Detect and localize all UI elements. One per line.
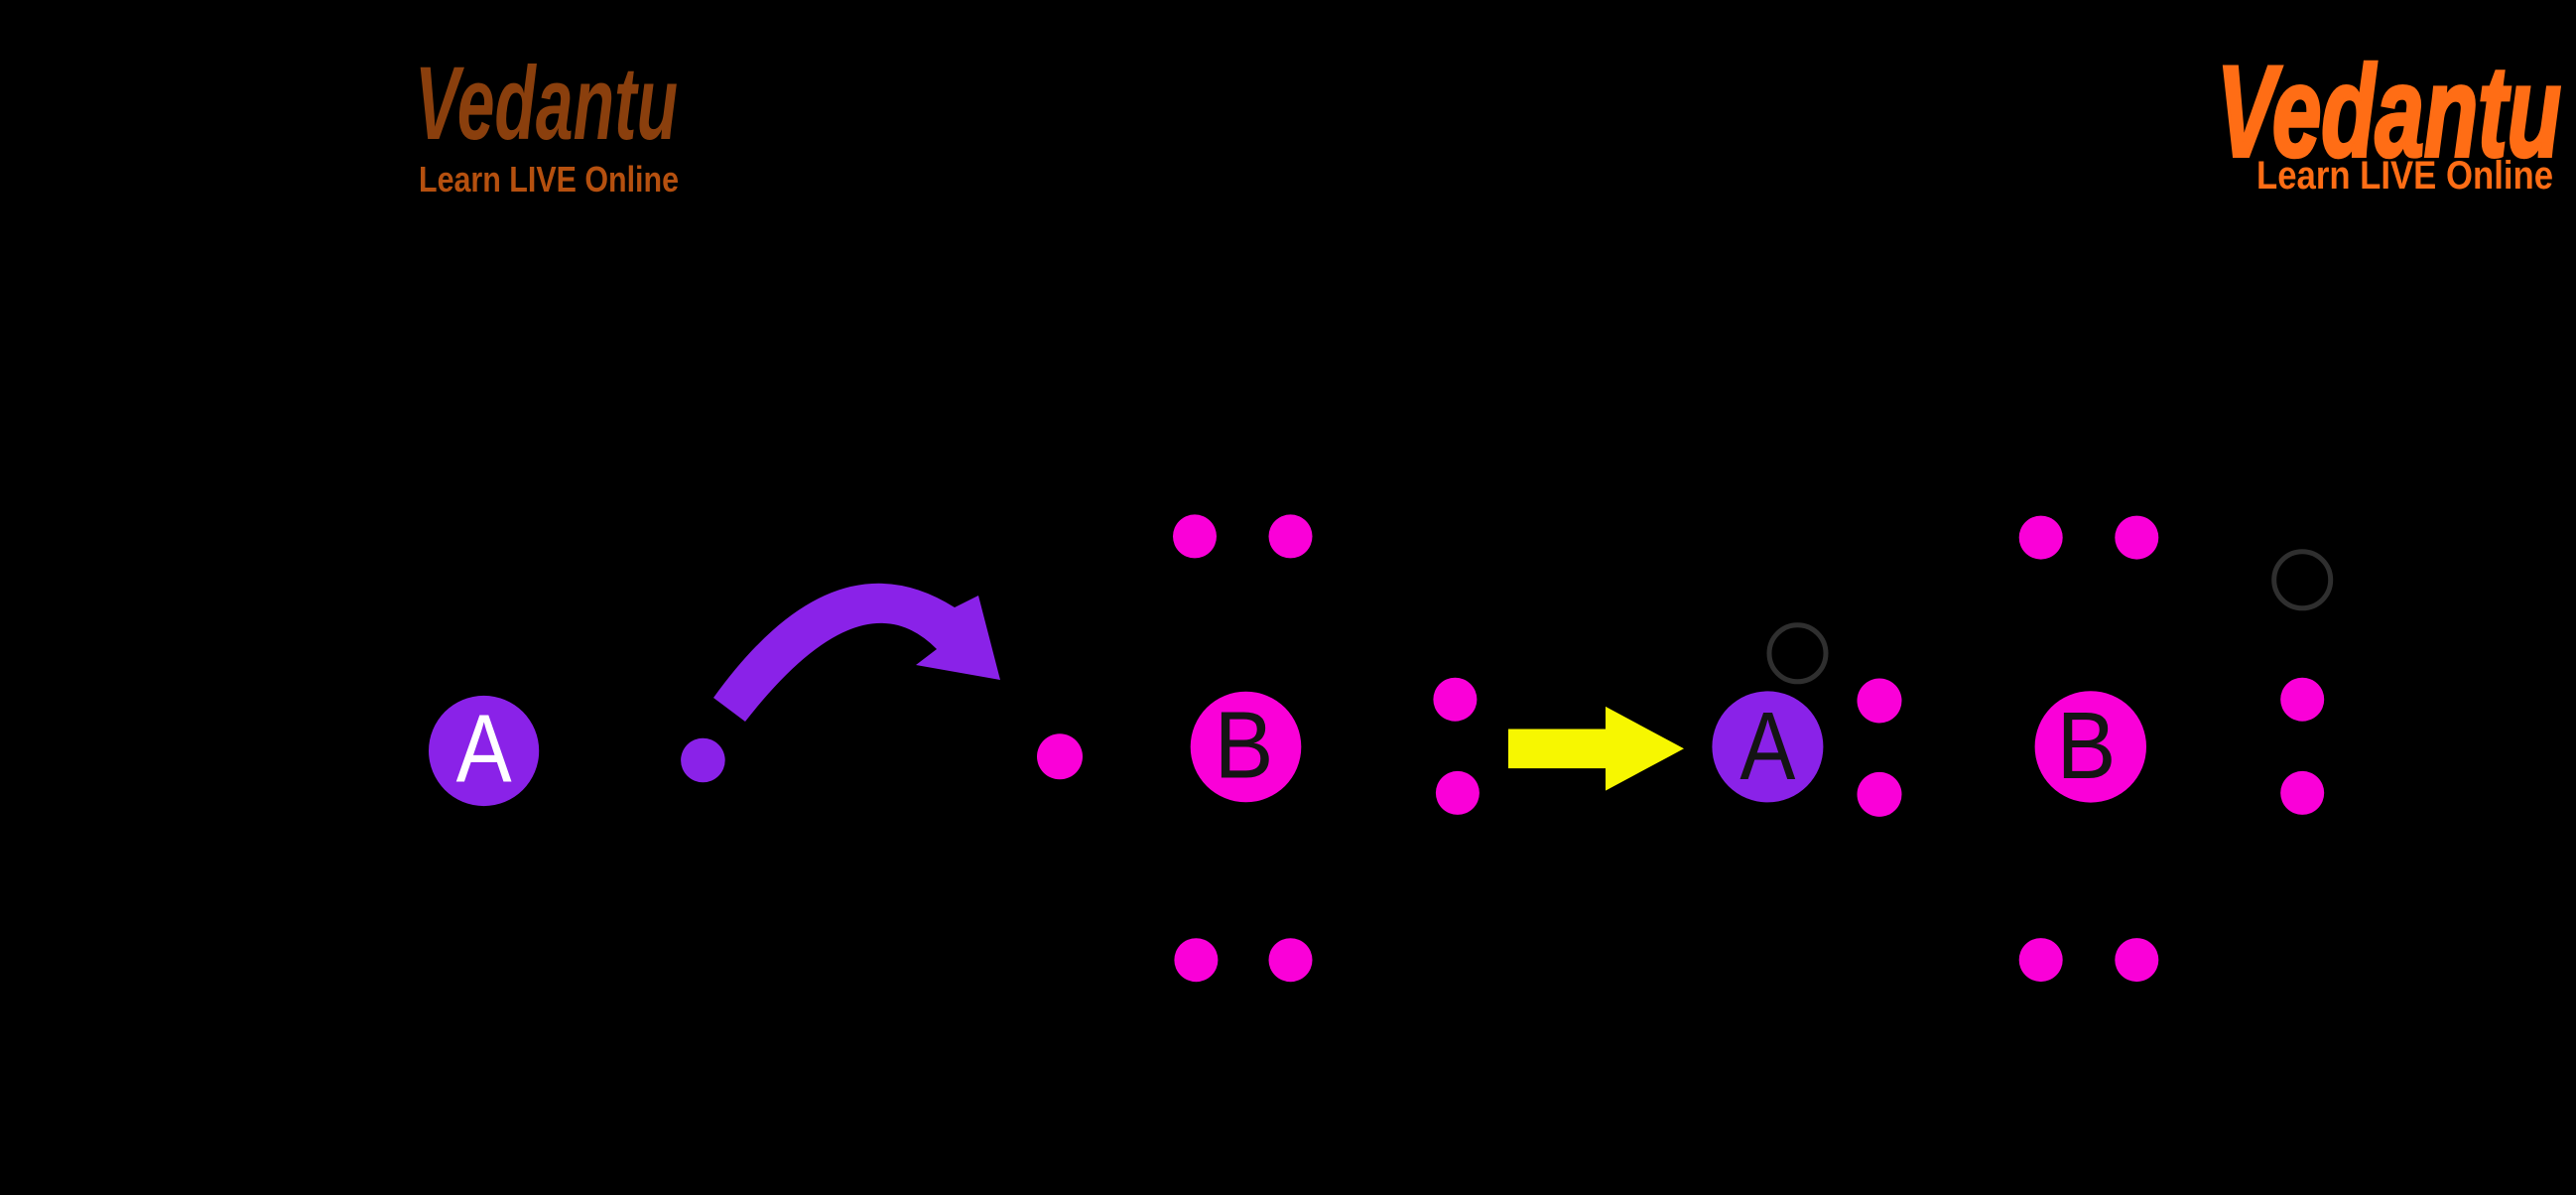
svg-text:A: A — [1739, 692, 1795, 800]
reaction arrow (yellow) — [1508, 707, 1684, 791]
svg-text:Learn LIVE Online: Learn LIVE Online — [419, 159, 679, 199]
B top-right lone pair dot — [1269, 514, 1313, 558]
electron position dot left of B (magenta) — [1037, 733, 1083, 779]
B- bottom-right lone pair dot — [2115, 938, 2158, 982]
empty orbital circle above A ion (gray outline) — [1769, 625, 1826, 682]
B right lone pair upper dot — [1433, 678, 1477, 722]
B bottom-left lone pair dot — [1174, 938, 1218, 982]
svg-text:Vedantu: Vedantu — [415, 46, 678, 162]
transferred pair lower dot (magenta) — [1858, 772, 1902, 817]
transferred pair upper dot (magenta) — [1858, 679, 1902, 724]
B- right lone pair lower dot — [2280, 771, 2324, 815]
empty orbital circle above B- ion (gray outline) — [2274, 552, 2331, 608]
B top-left lone pair dot — [1173, 514, 1217, 558]
svg-text:A: A — [456, 695, 512, 803]
svg-text:Learn LIVE Online: Learn LIVE Online — [2256, 154, 2553, 198]
B right lone pair lower dot — [1436, 771, 1480, 815]
atom A (left, neutral) circle — [429, 696, 539, 806]
B- top-left lone pair dot — [2019, 516, 2063, 560]
svg-text:B: B — [2057, 693, 2117, 799]
svg-text:B: B — [1215, 693, 1274, 799]
B- top-right lone pair dot — [2115, 516, 2158, 560]
B- right lone pair upper dot — [2280, 678, 2324, 722]
B bottom-right lone pair dot — [1269, 938, 1313, 982]
electron transfer curved arrow (purple, with barbed head) — [713, 584, 1000, 722]
atom B- ion circle — [2035, 691, 2146, 802]
atom B (left, neutral) circle — [1191, 692, 1302, 803]
valence electron of A (purple dot) — [681, 738, 725, 783]
atom A+ ion circle — [1712, 691, 1823, 802]
B- bottom-left lone pair dot — [2019, 938, 2063, 982]
